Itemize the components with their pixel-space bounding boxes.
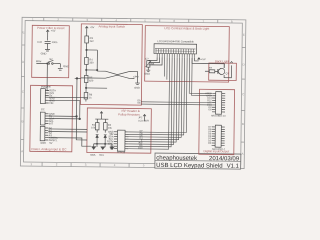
svg-text:B: B — [242, 122, 244, 126]
svg-text:GND: GND — [63, 64, 69, 68]
svg-text:100n: 100n — [52, 40, 58, 44]
svg-text:VIN: VIN — [49, 102, 53, 105]
svg-text:VO: VO — [110, 147, 114, 150]
svg-text:ARDUINO-7: ARDUINO-7 — [212, 148, 226, 151]
svg-text:330: 330 — [89, 61, 94, 64]
svg-text:LCD-16: LCD-16 — [117, 152, 126, 154]
svg-text:5V: 5V — [49, 142, 52, 145]
svg-text:A: A — [21, 149, 23, 153]
svg-text:C10: C10 — [37, 40, 42, 44]
svg-text:620: 620 — [89, 79, 94, 82]
svg-text:+5V: +5V — [201, 57, 206, 61]
svg-text:B: B — [21, 119, 23, 123]
svg-text:SCL: SCL — [99, 154, 105, 157]
svg-text:cheaphousetek: cheaphousetek — [156, 155, 198, 161]
svg-text:POWER: POWER — [41, 86, 51, 89]
svg-text:+5V: +5V — [90, 26, 95, 29]
svg-text:LCD1602/HD44780 Compatible: LCD1602/HD44780 Compatible — [157, 39, 194, 43]
svg-text:E: E — [243, 33, 245, 37]
svg-text:MR#: MR# — [36, 59, 42, 63]
svg-text:A: A — [241, 152, 243, 156]
svg-text:I2C: I2C — [41, 108, 45, 111]
svg-text:+5V: +5V — [51, 29, 56, 33]
svg-text:V1.1: V1.1 — [227, 164, 240, 170]
svg-text:2k2: 2k2 — [90, 40, 95, 43]
svg-text:SDA: SDA — [90, 154, 96, 157]
svg-text:Pullup Resistors: Pullup Resistors — [118, 112, 140, 116]
svg-text:2014/03/09: 2014/03/09 — [209, 156, 240, 162]
svg-text:Power, Analog Input & I2C: Power, Analog Input & I2C — [31, 147, 67, 151]
svg-text:C?: C? — [145, 57, 149, 61]
svg-text:LCD Contrast Adjust & Back Lig: LCD Contrast Adjust & Back Light — [164, 26, 209, 31]
svg-text:CPU: CPU — [133, 76, 139, 79]
svg-text:USB LCD Keypad Shield: USB LCD Keypad Shield — [156, 163, 222, 170]
svg-text:D10: D10 — [138, 147, 143, 149]
svg-text:ARDUINO-13: ARDUINO-13 — [211, 115, 226, 118]
svg-text:GND: GND — [40, 142, 46, 145]
svg-text:E: E — [22, 30, 24, 34]
svg-text:GND: GND — [134, 87, 140, 90]
svg-text:LCD HDR: LCD HDR — [138, 119, 149, 122]
svg-text:GND: GND — [144, 72, 150, 76]
svg-text:INT: INT — [49, 123, 54, 126]
svg-text:Back Light: Back Light — [215, 59, 229, 63]
svg-text:R8: R8 — [151, 62, 155, 66]
svg-text:GND: GND — [41, 51, 47, 55]
svg-text:Analog Input Switch: Analog Input Switch — [98, 24, 125, 28]
